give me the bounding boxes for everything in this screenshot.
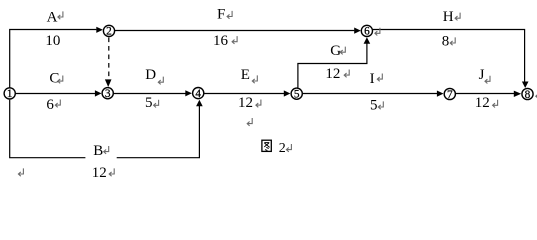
svg-text:D: D — [145, 67, 156, 83]
svg-text:J: J — [479, 67, 485, 83]
svg-text:5: 5 — [294, 89, 300, 101]
svg-text:5: 5 — [370, 98, 378, 114]
svg-text:10: 10 — [45, 33, 60, 49]
svg-text:7: 7 — [447, 89, 453, 101]
svg-text:3: 3 — [105, 88, 111, 100]
svg-text:2: 2 — [279, 141, 286, 156]
svg-text:12: 12 — [238, 95, 253, 111]
svg-text:A: A — [47, 10, 58, 26]
svg-text:16: 16 — [213, 33, 229, 49]
svg-text:8: 8 — [442, 34, 450, 50]
svg-text:1: 1 — [7, 88, 13, 100]
svg-text:H: H — [443, 9, 454, 25]
svg-text:B: B — [93, 143, 103, 159]
svg-text:12: 12 — [475, 95, 490, 111]
svg-text:8: 8 — [525, 89, 531, 101]
svg-text:6: 6 — [364, 26, 370, 38]
svg-text:I: I — [370, 71, 375, 87]
svg-text:12: 12 — [325, 66, 340, 82]
svg-text:G: G — [330, 43, 341, 59]
svg-text:C: C — [49, 71, 59, 87]
svg-text:F: F — [217, 6, 225, 22]
svg-text:E: E — [241, 67, 250, 83]
svg-text:12: 12 — [92, 165, 107, 181]
svg-text:6: 6 — [46, 97, 54, 113]
svg-text:5: 5 — [145, 95, 153, 111]
svg-text:4: 4 — [195, 88, 201, 100]
svg-text:2: 2 — [106, 26, 112, 38]
